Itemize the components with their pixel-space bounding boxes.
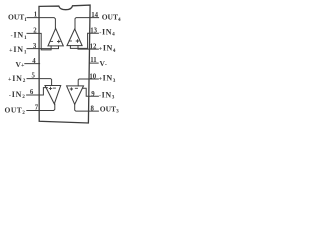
- svg-text:OUT3: OUT3: [100, 104, 119, 114]
- svg-text:14: 14: [91, 12, 98, 19]
- svg-text:7: 7: [35, 104, 39, 111]
- op-amp A2 (bottom-left, apex down): [45, 86, 61, 104]
- op-amp A3 (bottom-right, apex down): [67, 86, 84, 105]
- svg-text:-IN4: -IN4: [99, 27, 115, 37]
- svg-text:-IN2: -IN2: [9, 90, 26, 100]
- A4 inverting input mark -: [69, 40, 72, 42]
- wire pin 12 +IN4: [78, 46, 98, 50]
- svg-text:8: 8: [90, 105, 94, 112]
- svg-text:4: 4: [32, 58, 36, 65]
- wire pin 10 +IN3: [78, 79, 98, 86]
- svg-text:+IN3: +IN3: [99, 74, 116, 84]
- svg-text:9: 9: [91, 91, 95, 98]
- wire pin 3 +IN1: [27, 46, 59, 49]
- svg-text:OUT1: OUT1: [8, 13, 27, 23]
- wire pin 11 V-: [90, 62, 98, 64]
- svg-text:10: 10: [89, 74, 96, 81]
- A4 non-inverting input mark +: [76, 40, 79, 43]
- wire pin 8 OUT3: [75, 104, 99, 111]
- A3 non-inverting input mark +: [70, 88, 72, 90]
- svg-text:11: 11: [90, 57, 97, 64]
- A2 non-inverting input mark +: [49, 87, 51, 89]
- wire pin 2 -IN1: [27, 33, 51, 50]
- svg-text:2: 2: [33, 28, 37, 35]
- svg-text:V+: V+: [16, 60, 25, 69]
- svg-text:V-: V-: [100, 59, 107, 68]
- wire pin 13 -IN4: [70, 33, 98, 48]
- op-amp A4 (top-right, apex up): [67, 29, 82, 46]
- wire pin 1 OUT1: [27, 18, 55, 29]
- wire pin 5 +IN2: [27, 79, 52, 86]
- A1 non-inverting input mark +: [58, 40, 61, 43]
- wire pin 7 OUT2: [27, 104, 55, 111]
- svg-text:OUT4: OUT4: [102, 13, 121, 23]
- svg-text:5: 5: [31, 73, 35, 80]
- svg-text:OUT2: OUT2: [5, 106, 26, 116]
- svg-text:13: 13: [90, 28, 97, 35]
- wire pin 9 -IN3: [83, 88, 99, 96]
- svg-text:+IN2: +IN2: [8, 74, 26, 84]
- svg-text:12: 12: [90, 44, 97, 51]
- A1 inverting input mark -: [50, 40, 53, 42]
- svg-text:6: 6: [30, 89, 34, 96]
- svg-text:+IN4: +IN4: [99, 44, 116, 54]
- IC body DIP-14 outline with index notch: [39, 5, 90, 123]
- svg-text:-IN1: -IN1: [11, 31, 28, 41]
- svg-text:1: 1: [34, 12, 38, 19]
- wire pin 4 V+: [25, 63, 40, 65]
- A2 inverting input mark -: [53, 87, 55, 89]
- wire pin 14 OUT4: [75, 18, 99, 30]
- wire pin 6 -IN2: [27, 88, 48, 95]
- svg-text:3: 3: [33, 43, 37, 50]
- svg-text:-IN3: -IN3: [99, 90, 115, 100]
- op-amp A1 (top-left, apex up): [48, 28, 63, 46]
- svg-text:+IN1: +IN1: [9, 45, 27, 55]
- A3 inverting input mark -: [75, 87, 77, 89]
